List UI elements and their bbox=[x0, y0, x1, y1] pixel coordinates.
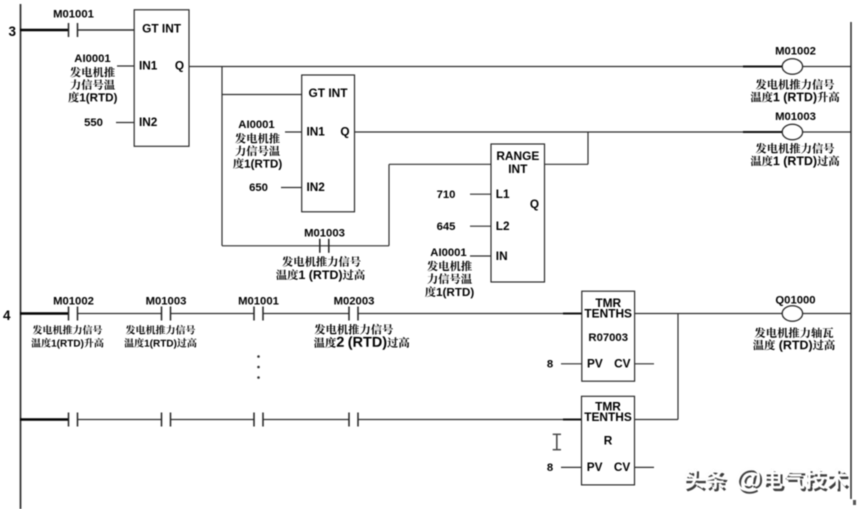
wire U1 Q to coil M01002 bbox=[189, 66, 782, 68]
svg-text:710: 710 bbox=[437, 189, 456, 201]
wire bottom seg3 bbox=[263, 419, 349, 421]
contact M01001 bbox=[68, 23, 70, 37]
caption rung4 M01003 line1 bbox=[126, 325, 195, 334]
svg-text:IN1: IN1 bbox=[139, 59, 158, 73]
watermark toutiao bbox=[684, 468, 849, 494]
wire contact M01001 to GT INT U1 bbox=[78, 29, 134, 31]
bottom-right cursor artifact bbox=[853, 500, 856, 505]
svg-text:PV: PV bbox=[587, 460, 603, 474]
wire U5 out to junction bbox=[635, 419, 679, 421]
svg-text:645: 645 bbox=[437, 221, 456, 233]
svg-text:TENTHS: TENTHS bbox=[584, 307, 632, 321]
wire branch to contact M01003 bbox=[222, 245, 389, 247]
svg-text:IN1: IN1 bbox=[307, 125, 326, 139]
caption rung4 M01002 line1 bbox=[33, 325, 102, 334]
svg-text:M01001: M01001 bbox=[53, 9, 94, 21]
wire coil M01003 to right rail bbox=[803, 131, 851, 133]
svg-text:550: 550 bbox=[84, 117, 103, 129]
caption U3 input line2 bbox=[427, 273, 472, 284]
coil Q01000 bbox=[782, 306, 802, 322]
caption branch contact line1 bbox=[282, 256, 360, 267]
caption U2 input line2 bbox=[235, 145, 280, 156]
svg-text:CV: CV bbox=[614, 460, 631, 474]
svg-text:R: R bbox=[604, 434, 613, 448]
caption U3 input line1 bbox=[427, 261, 472, 272]
caption U1 input line1 bbox=[70, 67, 115, 78]
wire 650 to U2 IN2 bbox=[281, 187, 302, 189]
contact M01001 (rung4) bbox=[253, 307, 255, 321]
wire into RANGE INT enable bbox=[389, 163, 491, 165]
wire rung4 rail to contact M01002 (bold) bbox=[20, 312, 68, 315]
wire coil M01002 to right rail bbox=[803, 66, 851, 68]
svg-text:M02003: M02003 bbox=[334, 295, 375, 307]
wire 8 to U5 PV bbox=[561, 466, 582, 468]
caption U3 input line3 bbox=[425, 286, 474, 298]
wire bottom rung rail to contact1 (bold) bbox=[20, 418, 68, 421]
function block U4 TMR TENTHS bbox=[582, 291, 635, 381]
svg-text:GT INT: GT INT bbox=[142, 21, 182, 35]
wire AI0001 to U3 IN bbox=[470, 255, 491, 257]
wire AI0001 to U2 IN1 bbox=[285, 131, 302, 133]
svg-text:M01003: M01003 bbox=[775, 111, 816, 123]
wire rung4 seg3 bbox=[263, 313, 349, 315]
svg-text:L1: L1 bbox=[496, 187, 510, 201]
svg-text:INT: INT bbox=[508, 162, 528, 176]
svg-text:PV: PV bbox=[587, 356, 603, 370]
wire U4 out to coil Q01000 bbox=[635, 313, 783, 315]
wire U5 CV stub bbox=[635, 466, 655, 468]
caption coil Q01000 line2 bbox=[753, 340, 835, 352]
svg-text:TENTHS: TENTHS bbox=[584, 410, 632, 424]
wire rung3 rail to contact M01001 (bold) bbox=[20, 29, 68, 32]
function block U3 RANGE INT bbox=[491, 144, 545, 282]
function block U2 GT INT bbox=[302, 75, 355, 212]
caption coil M01003 line2 bbox=[751, 155, 840, 167]
wire bold segment before coil M01003 bbox=[743, 131, 782, 133]
svg-text:M01002: M01002 bbox=[53, 295, 94, 307]
wire bold segment before TMR1 bbox=[563, 313, 582, 315]
svg-text:4: 4 bbox=[3, 308, 11, 323]
left power rail bbox=[20, 4, 22, 509]
wire 550 to U1 IN2 bbox=[116, 122, 134, 124]
wire 8 to U4 PV bbox=[561, 363, 582, 365]
contact 1 (bottom rung) bbox=[68, 413, 70, 427]
contact M01003 (branch) bbox=[319, 239, 321, 253]
caption U1 input line2 bbox=[70, 79, 115, 90]
svg-text:IN: IN bbox=[496, 249, 508, 263]
wire U3 output right bbox=[545, 163, 589, 165]
caption rung4 M02003 line1 bbox=[315, 324, 393, 335]
contact M01003 (rung4) bbox=[161, 307, 163, 321]
wire rung4 seg4 to TMR1 bbox=[358, 313, 582, 315]
svg-text:RANGE: RANGE bbox=[496, 149, 539, 163]
right power rail bbox=[850, 22, 852, 499]
caption rung4 M01002 line2 bbox=[31, 338, 103, 349]
svg-text:M01002: M01002 bbox=[775, 45, 816, 57]
ellipsis dots under contact M01001 bbox=[257, 355, 260, 379]
wire bottom seg4 to TMR2 bbox=[358, 419, 581, 421]
svg-text:650: 650 bbox=[249, 182, 268, 194]
svg-text:L2: L2 bbox=[496, 219, 510, 233]
caption coil M01002 line2 bbox=[751, 92, 840, 104]
function block U1 GT INT bbox=[134, 10, 189, 147]
contact 3 (bottom rung) bbox=[253, 413, 255, 427]
contact M01002 (rung4) bbox=[68, 307, 70, 321]
wire junction to U2 enable bbox=[222, 94, 302, 96]
svg-text:GT INT: GT INT bbox=[309, 86, 349, 100]
svg-text:IN2: IN2 bbox=[307, 180, 326, 194]
junction vertical at x222 bbox=[221, 67, 223, 246]
wire 710 to U3 L1 bbox=[470, 193, 491, 195]
vertical wire up to RANGE INT enable bbox=[388, 164, 390, 246]
svg-text:Q01000: Q01000 bbox=[775, 295, 815, 307]
svg-text:M01001: M01001 bbox=[238, 295, 279, 307]
wire rung4 seg2 bbox=[171, 313, 254, 315]
svg-text:8: 8 bbox=[547, 358, 553, 370]
caption rung4 M01003 line2 bbox=[124, 338, 196, 349]
svg-text:R07003: R07003 bbox=[588, 332, 628, 344]
wire bottom seg1 bbox=[78, 419, 162, 421]
wire U2 Q to coil M01003 bbox=[355, 131, 783, 133]
svg-text:Q: Q bbox=[340, 125, 349, 139]
caption coil M01003 line1 bbox=[756, 143, 834, 154]
contact M02003 (rung4) bbox=[348, 307, 350, 321]
svg-text:8: 8 bbox=[547, 462, 553, 474]
caption coil Q01000 line1 bbox=[755, 327, 834, 338]
function block U5 TMR TENTHS bbox=[582, 396, 635, 485]
junction vertical TMR parallel bbox=[677, 314, 679, 420]
svg-text:M01003: M01003 bbox=[146, 295, 187, 307]
caption U2 input line1 bbox=[235, 133, 280, 144]
svg-text:Q: Q bbox=[175, 59, 184, 73]
contact 2 (bottom rung) bbox=[161, 413, 163, 427]
contact 4 (bottom rung) bbox=[348, 413, 350, 427]
coil M01003 bbox=[782, 124, 802, 140]
svg-text:3: 3 bbox=[9, 24, 17, 39]
wire AI0001 to U1 IN1 bbox=[117, 65, 134, 67]
svg-text:AI0001: AI0001 bbox=[238, 119, 274, 131]
coil M01002 bbox=[782, 59, 802, 75]
svg-text:IN2: IN2 bbox=[139, 115, 158, 129]
svg-text:Q: Q bbox=[530, 197, 539, 211]
vertical wire U3 output joins M01003 coil wire bbox=[587, 132, 589, 164]
wire 645 to U3 L2 bbox=[470, 225, 491, 227]
svg-text:M01003: M01003 bbox=[304, 228, 345, 240]
caption U1 input line3 bbox=[68, 92, 117, 104]
wire U4 CV stub bbox=[635, 363, 654, 365]
wire bottom seg2 bbox=[171, 419, 254, 421]
wire bold segment before TMR2 bbox=[563, 419, 582, 421]
svg-text:AI0001: AI0001 bbox=[430, 247, 466, 259]
svg-text:CV: CV bbox=[614, 356, 631, 370]
caption U2 input line3 bbox=[233, 158, 282, 170]
wire bold segment before coil M01002 bbox=[743, 65, 782, 67]
wire coil Q01000 to right rail bbox=[803, 313, 851, 315]
caption branch contact line2 bbox=[276, 269, 365, 281]
caption rung4 M02003 line2 bbox=[314, 336, 409, 349]
svg-text:AI0001: AI0001 bbox=[74, 53, 110, 65]
wire rung4 seg1 bbox=[78, 313, 162, 315]
text I-beam cursor bbox=[553, 434, 561, 449]
caption coil M01002 line1 bbox=[756, 79, 834, 90]
